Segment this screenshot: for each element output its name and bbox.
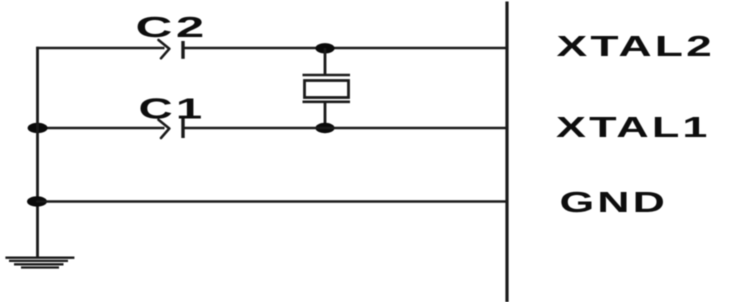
wire: crystal top lead bbox=[324, 48, 327, 75]
wire: XTAL2 rail left segment bbox=[36, 47, 164, 50]
ground bbox=[5, 258, 74, 268]
node: crystal / XTAL1 junction bbox=[315, 123, 334, 133]
svg-text:GND: GND bbox=[560, 186, 668, 218]
svg-text:XTAL1: XTAL1 bbox=[556, 112, 710, 144]
wire: XTAL1 rail left segment bbox=[36, 127, 164, 130]
wire: GND rail bbox=[36, 200, 507, 203]
svg-text:XTAL2: XTAL2 bbox=[557, 31, 715, 63]
node: crystal / XTAL2 junction bbox=[315, 43, 334, 53]
wire: crystal bottom lead bbox=[324, 102, 327, 128]
capacitor C2 bbox=[159, 40, 184, 59]
svg-text:C2: C2 bbox=[136, 10, 208, 43]
microcontroller edge line bbox=[505, 2, 508, 302]
node: left rail / GND junction bbox=[27, 196, 47, 206]
node: left rail / XTAL1 junction bbox=[28, 123, 48, 133]
svg-text:C1: C1 bbox=[139, 93, 206, 125]
crystal Y1 bbox=[303, 75, 351, 102]
capacitor C1 bbox=[159, 118, 184, 138]
wire: XTAL1 rail right segment bbox=[185, 127, 508, 130]
wire: XTAL2 rail right segment bbox=[185, 47, 508, 50]
wire: left vertical rail bbox=[36, 47, 39, 258]
